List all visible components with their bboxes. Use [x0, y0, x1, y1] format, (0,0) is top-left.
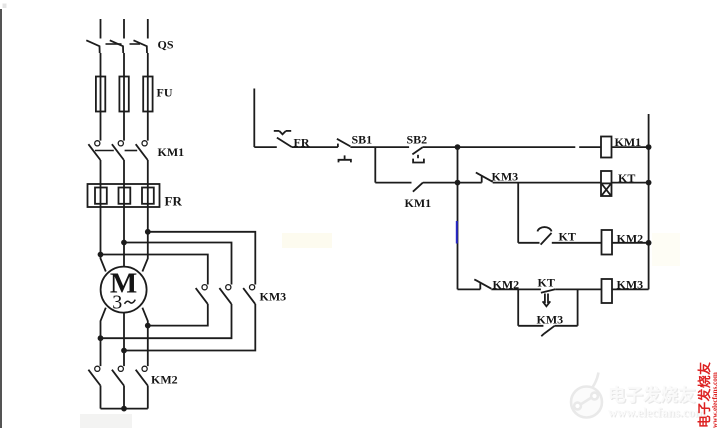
time relay coil KT: [601, 171, 612, 196]
wire KT coil to right rail: [612, 182, 649, 184]
wire motor bottom W2: [142, 308, 147, 366]
wire KM1 coil to right rail: [612, 146, 649, 148]
wire branch down to KM3 aux: [517, 289, 519, 325]
node U2: [99, 336, 103, 340]
tilde of 3~: [125, 300, 136, 304]
wire KM2 pole 2 down: [123, 386, 125, 409]
wire KT contact to KM2 coil: [552, 242, 602, 244]
svg-text:KM1: KM1: [405, 196, 432, 210]
contactor KM2 NC interlock contact: [474, 279, 491, 289]
node rung3 right rail: [647, 241, 651, 245]
svg-text:FU: FU: [157, 86, 173, 100]
svg-text:QS: QS: [158, 38, 174, 52]
contactor KM3 NC interlock contact: [476, 173, 493, 183]
node rung2 right rail: [647, 181, 651, 185]
contactor KM1 NO auxiliary contact: [413, 183, 423, 192]
contactor KM3 delta contact pole 3: [243, 285, 255, 304]
svg-text:www.elecfans.com: www.elecfans.com: [608, 406, 706, 420]
svg-text:www.elecfans.com: www.elecfans.com: [711, 372, 717, 428]
svg-text:KT: KT: [538, 276, 555, 290]
svg-text:FR: FR: [165, 194, 183, 209]
wire KM3 coil to right rail: [612, 288, 649, 290]
contactor KM1 main contact pole 1: [88, 141, 100, 160]
gray watermark text www.elecfans.com: [608, 406, 707, 421]
motor M circle: [101, 267, 147, 313]
wire self-hold branch: [375, 182, 411, 184]
control supply right rail: [648, 114, 650, 289]
svg-text:KT: KT: [618, 171, 635, 185]
wire rung2 down to rung3: [517, 183, 519, 243]
thermal overload relay FR heater box: [88, 184, 160, 207]
wire branch bottom right: [555, 325, 578, 327]
contactor KM1 main contact pole 2: [112, 141, 124, 160]
scan artifact cream band: [282, 233, 332, 248]
contactor KM1 main contact pole 3: [136, 141, 148, 160]
wire motor bottom V2: [123, 313, 125, 367]
node V1: [122, 241, 126, 245]
wire L1 FU to KM1: [100, 112, 102, 141]
wire self-hold to rail2: [423, 182, 458, 184]
node W1: [146, 230, 150, 234]
wire KM2 NC to KT contact: [491, 288, 541, 290]
wire L2 top: [123, 19, 125, 39]
contactor coil KM2: [602, 230, 613, 255]
contactor KM2 star contact pole 2: [112, 366, 124, 385]
wire KM2 pole 3 down: [147, 386, 149, 409]
disconnect switch QS pole 3: [134, 40, 148, 53]
KM1 linkage dashed line: [95, 150, 137, 152]
start pushbutton SB2 NO: [412, 147, 424, 162]
wire L1 top: [100, 19, 102, 39]
time relay KT NO delayed-close contact: [538, 227, 552, 245]
node rung2 rail2: [456, 181, 460, 185]
gray watermark logo circle: [571, 373, 602, 418]
thermal relay FR NC contact: [274, 131, 292, 147]
contactor KM3 delta contact pole 2: [219, 285, 231, 304]
wire SB2 to KM1 coil: [423, 146, 601, 148]
blue artifact on rail2: [456, 221, 458, 244]
wire L1 KM1 to FR: [100, 160, 102, 184]
contactor KM3 delta contact pole 1: [196, 285, 208, 304]
wire motor bottom U2: [101, 308, 106, 366]
star point bus bar: [101, 408, 148, 410]
svg-text:电子发烧友: 电子发烧友: [697, 362, 712, 428]
wire rail2 to KM3 NC: [458, 182, 482, 184]
node V2: [122, 349, 126, 353]
svg-text:SB1: SB1: [352, 133, 373, 147]
wire L2 QS to FU: [123, 53, 125, 77]
wire U1 to KM3 pole 1 top: [101, 255, 208, 285]
middle rail2 vertical: [457, 147, 459, 289]
wire L3 KM1 to FR: [147, 160, 149, 184]
wire L3 FU to KM1: [147, 112, 149, 141]
svg-text:KM3: KM3: [617, 278, 644, 292]
svg-text:KM2: KM2: [151, 373, 178, 387]
QS linkage dashed line: [106, 43, 141, 45]
node W2: [146, 324, 150, 328]
contactor KM2 star contact pole 3: [136, 366, 148, 385]
contactor KM2 star contact pole 1: [88, 366, 100, 385]
fuse FU 1: [96, 77, 105, 112]
wire KM2 coil to right rail: [612, 242, 649, 244]
node U1: [99, 253, 103, 257]
contactor coil KM1: [601, 137, 612, 158]
wire branch up to rung4: [577, 289, 579, 325]
contactor KM3 NO auxiliary contact: [541, 326, 554, 336]
svg-text:KM1: KM1: [615, 135, 642, 149]
wire rail to FR contact: [254, 146, 276, 148]
contactor coil KM3: [602, 279, 613, 303]
wire KT contact to KM3 coil: [555, 288, 601, 290]
wire KM3 pole 2 bottom to U2: [101, 304, 232, 338]
wire KM3 pole 3 bottom to V2: [124, 304, 255, 351]
wire KM3 pole 1 bottom to W2: [148, 304, 208, 326]
svg-text:FR: FR: [294, 136, 310, 150]
disconnect switch QS pole 1: [86, 40, 99, 53]
disconnect switch QS pole 2: [110, 40, 123, 53]
gray watermark text 电子发烧友: [608, 385, 697, 406]
star point node: [122, 407, 126, 411]
wire L1 FR to motor: [101, 184, 106, 272]
wire L1 QS to FU: [100, 53, 102, 77]
wire L2 KM1 to FR: [123, 160, 125, 184]
wire W1 to KM3 pole 3 top: [148, 232, 256, 285]
wire L3 QS to FU: [147, 53, 149, 77]
stop pushbutton SB1 NC: [337, 139, 351, 163]
svg-text:KM2: KM2: [617, 232, 644, 246]
fuse FU 2: [119, 77, 128, 112]
scan artifact cream band right: [652, 233, 680, 266]
node rung1 right rail: [647, 145, 651, 149]
wire L2 FR to motor: [123, 184, 125, 267]
svg-text:电子发烧友: 电子发烧友: [608, 385, 696, 405]
wire KM3 NC to KT coil: [493, 182, 601, 184]
time relay KT NC delayed-open contact: [541, 289, 555, 306]
wire rail2 to KM2 NC: [458, 288, 481, 290]
wire branch bottom left: [518, 325, 543, 327]
wire L3 top: [147, 19, 149, 39]
wire rung3 to KT contact: [518, 242, 539, 244]
svg-text:KM2: KM2: [493, 278, 520, 292]
wire V1 to KM3 pole 2 top: [124, 243, 232, 285]
svg-text:KT: KT: [559, 230, 576, 244]
wire branch down to self-hold: [374, 147, 376, 183]
svg-text:KM1: KM1: [158, 145, 185, 159]
svg-text:KM3: KM3: [260, 290, 287, 304]
wire SB1 to SB2: [350, 146, 409, 148]
svg-text:KM3: KM3: [492, 170, 519, 184]
wire FR to SB1: [292, 146, 338, 148]
control supply left rail: [253, 89, 255, 148]
svg-text:3: 3: [112, 292, 122, 314]
left scan border line: [0, 9, 2, 428]
top-left scan speck: [3, 4, 7, 9]
svg-text:SB2: SB2: [407, 133, 428, 147]
svg-text:KM3: KM3: [537, 313, 564, 327]
fuse FU 3: [143, 77, 152, 112]
bottom-left scan smudge: [80, 414, 132, 428]
wire KM2 pole 1 down: [100, 386, 102, 409]
wire L3 FR to motor: [142, 184, 147, 272]
node rung1 rail2: [456, 145, 460, 149]
wire L2 FU to KM1: [123, 112, 125, 141]
